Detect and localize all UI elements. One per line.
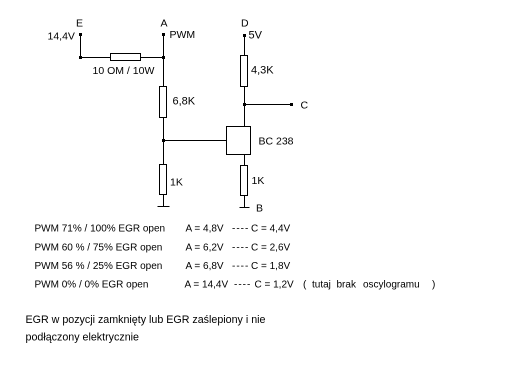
svg-text:10 OM / 10W: 10 OM / 10W [93, 65, 155, 77]
wire [81, 57, 164, 59]
svg-text:1K: 1K [170, 177, 183, 189]
svg-text:E: E [76, 18, 83, 30]
svg-text:EGR w pozycji zamknięty lub EG: EGR w pozycji zamknięty lub EGR zaślepio… [26, 314, 266, 326]
svg-text:A = 6,8V----C = 1,8V: A = 6,8V----C = 1,8V [186, 261, 291, 272]
wire [245, 104, 292, 106]
svg-text:PWM 60 % / 75% EGR open: PWM 60 % / 75% EGR open [35, 242, 163, 253]
junction [162, 56, 165, 59]
svg-text:PWM 56 % / 25% EGR open: PWM 56 % / 25% EGR open [35, 261, 163, 272]
junction [162, 139, 165, 142]
wire [163, 195, 165, 207]
svg-text:BC 238: BC 238 [259, 136, 294, 148]
svg-text:PWM 71% / 100% EGR open: PWM 71% / 100% EGR open [35, 224, 166, 235]
svg-text:4,3K: 4,3K [251, 65, 274, 77]
transistor Q1 BC 238 [227, 127, 251, 155]
svg-text:A: A [161, 18, 168, 30]
resistor R4 4,3K [241, 56, 248, 87]
svg-text:A = 14,4V----C = 1,2V(tutajbra: A = 14,4V----C = 1,2V(tutajbrakoscylogra… [185, 280, 436, 291]
junction [79, 56, 82, 59]
svg-text:1K: 1K [252, 175, 265, 187]
junction [243, 103, 246, 106]
resistor R5 1K [241, 166, 248, 196]
wire [163, 58, 165, 88]
svg-text:A = 4,8V----C = 4,4V: A = 4,8V----C = 4,4V [186, 224, 291, 235]
wire [244, 36, 246, 57]
svg-text:D: D [241, 18, 249, 30]
svg-text:C: C [301, 100, 309, 112]
svg-text:PWM 0% / 0% EGR open: PWM 0% / 0% EGR open [35, 280, 149, 291]
resistor R2 6,8K [160, 87, 167, 118]
svg-text:6,8K: 6,8K [173, 96, 196, 108]
node C [290, 100, 309, 112]
svg-text:14,4V: 14,4V [48, 31, 75, 43]
node A [161, 18, 168, 37]
svg-text:B: B [256, 203, 263, 215]
svg-text:5V: 5V [249, 30, 263, 42]
wire [244, 87, 246, 127]
node E [76, 18, 83, 37]
ground [240, 207, 250, 209]
svg-text:podłączony elektrycznie: podłączony elektrycznie [26, 332, 140, 344]
wire [164, 140, 227, 142]
svg-text:A = 6,2V----C = 2,6V: A = 6,2V----C = 2,6V [186, 242, 291, 253]
wire [244, 155, 246, 166]
node D [241, 18, 249, 38]
wire [163, 118, 165, 166]
wire [244, 196, 246, 208]
resistor R1 [111, 54, 141, 61]
wire [163, 34, 165, 58]
wire [80, 34, 82, 58]
svg-text:PWM: PWM [170, 29, 196, 41]
ground [158, 206, 170, 208]
resistor R3 1K [160, 165, 167, 195]
